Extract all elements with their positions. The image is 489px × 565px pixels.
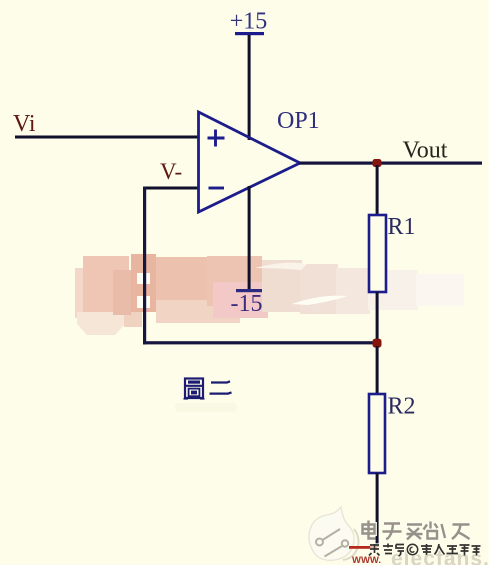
svg-text:-15: -15	[231, 291, 263, 317]
svg-text:+15: +15	[230, 9, 268, 35]
watermark logo (elecfans)	[309, 507, 359, 560]
resistor R2	[369, 394, 385, 473]
wire R1 to feedback node	[376, 292, 379, 341]
power -15 bar	[236, 289, 262, 292]
svg-text:R2: R2	[388, 394, 416, 420]
resistor R1	[369, 215, 386, 292]
wire feedback vertical	[143, 187, 146, 345]
svg-text:WWW.: WWW.	[352, 555, 381, 565]
watermark red ground line	[349, 546, 377, 549]
wire output	[299, 162, 482, 165]
wire R2 down	[376, 473, 379, 547]
watermark faint smudge below caption	[175, 403, 237, 412]
svg-text:V-: V-	[160, 159, 182, 184]
node output junction	[373, 159, 382, 167]
watermark text 电子发烧友 (gray fake glyphs)	[363, 521, 470, 540]
op-amp minus input symbol	[209, 187, 225, 190]
node feedback junction	[373, 339, 382, 348]
watermark text 头条号@嵌入式疯狗 (dark fake glyphs)	[369, 544, 481, 557]
svg-text:OP1: OP1	[277, 108, 320, 134]
wire inverting input	[143, 187, 198, 190]
wire op-amp to -15	[248, 186, 251, 289]
svg-text:R1: R1	[388, 214, 416, 240]
svg-text:Vout: Vout	[403, 138, 448, 164]
wire feedback horizontal	[143, 341, 377, 344]
watermark white squares on band	[137, 273, 150, 308]
label figure caption 圖二 (drawn glyphs)	[184, 379, 232, 399]
op-amp plus input symbol	[208, 130, 225, 147]
wire +15 to op-amp	[248, 35, 251, 140]
svg-text:Vi: Vi	[13, 111, 36, 137]
wire junction to R1	[376, 165, 379, 217]
power +15 bar	[235, 32, 264, 35]
op-amp OP1 triangle	[199, 112, 301, 212]
watermark salmon band	[75, 254, 464, 335]
wire node to R2	[376, 346, 379, 394]
wire Vi to noninverting input	[15, 136, 198, 139]
